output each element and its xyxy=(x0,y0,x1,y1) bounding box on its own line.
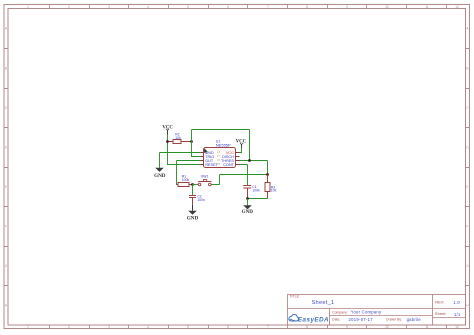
node junction C1/GND/R3 xyxy=(246,197,249,200)
border tick marks bottom xyxy=(50,325,447,329)
wire GND pin to left xyxy=(160,153,201,168)
wire THRES pin right and down xyxy=(240,161,268,175)
wire CONT pin to C1 xyxy=(240,165,248,186)
node junction THRES/SW1/R3 xyxy=(266,173,269,176)
svg-text:F: F xyxy=(467,225,469,229)
svg-text:3: 3 xyxy=(108,325,110,329)
svg-text:7: 7 xyxy=(267,325,269,329)
svg-text:NE555P: NE555P xyxy=(216,143,231,148)
ground GND (under C2) xyxy=(187,205,199,221)
title block values xyxy=(312,300,461,322)
svg-text:1/1: 1/1 xyxy=(454,312,461,317)
IC U1 NE555P xyxy=(201,140,240,168)
svg-text:2019-07-17: 2019-07-17 xyxy=(349,317,374,322)
wire VCC to R2-left junction xyxy=(167,135,169,142)
ground GND (right) xyxy=(242,199,254,216)
svg-text:F: F xyxy=(5,225,7,229)
svg-text:6: 6 xyxy=(227,325,229,329)
wire R2 junction up and over to THRES column xyxy=(192,130,250,161)
svg-text:B: B xyxy=(466,67,468,71)
wire VCC flag to VCC pin xyxy=(240,148,242,153)
svg-text:2: 2 xyxy=(68,325,70,329)
node junction top-net/THRES xyxy=(248,159,251,162)
EasyEDA logo xyxy=(289,314,329,323)
power flag VCC (right, at pin 8) xyxy=(236,140,247,148)
capacitor C2 xyxy=(189,185,205,205)
svg-text:9: 9 xyxy=(346,325,348,329)
svg-text:GND: GND xyxy=(242,209,254,215)
svg-text:3: 3 xyxy=(108,5,110,9)
svg-text:EasyEDA: EasyEDA xyxy=(298,316,329,323)
svg-text:10k: 10k xyxy=(175,136,181,140)
node junction VCC/R2/RESET xyxy=(166,140,169,143)
svg-text:4: 4 xyxy=(147,325,149,329)
svg-text:Sheet:: Sheet: xyxy=(435,311,447,316)
resistor R3 xyxy=(265,175,277,199)
node junction R1/SW1/C2 xyxy=(191,183,194,186)
svg-text:REV:: REV: xyxy=(435,300,444,305)
capacitor C1 xyxy=(243,185,260,199)
border tick marks top xyxy=(50,5,447,9)
svg-text:100k: 100k xyxy=(252,189,260,193)
svg-text:7: 7 xyxy=(267,5,269,9)
svg-text:12: 12 xyxy=(455,325,459,329)
svg-text:SW1: SW1 xyxy=(201,174,208,178)
svg-text:1: 1 xyxy=(27,325,29,329)
svg-text:8: 8 xyxy=(306,325,308,329)
svg-text:Sheet_1: Sheet_1 xyxy=(312,300,335,306)
svg-text:10k: 10k xyxy=(271,189,277,193)
resistor R1 xyxy=(177,175,193,187)
mouse cursor xyxy=(204,148,208,154)
svg-text:5: 5 xyxy=(187,5,189,9)
svg-text:10: 10 xyxy=(385,325,389,329)
wire R2 junction down to TRIG pin xyxy=(192,130,201,157)
wire OUT pin down to R1 xyxy=(177,161,201,185)
svg-text:8: 8 xyxy=(306,5,308,9)
svg-text:1.0: 1.0 xyxy=(453,300,460,305)
switch SW1 xyxy=(198,174,211,186)
svg-text:GND: GND xyxy=(154,173,166,179)
wire VCC/R2 junction down to RESET pin xyxy=(168,142,201,165)
svg-text:5: 5 xyxy=(187,325,189,329)
svg-text:Drawn By:: Drawn By: xyxy=(386,318,402,322)
wire R1 junction to SW1 xyxy=(193,184,199,186)
svg-text:Date:: Date: xyxy=(332,318,340,322)
power flag VCC (left) xyxy=(162,125,173,134)
svg-text:100k: 100k xyxy=(182,178,190,182)
svg-text:11: 11 xyxy=(425,325,429,329)
ground GND (left) xyxy=(154,168,166,180)
svg-text:4: 4 xyxy=(147,5,149,9)
svg-text:E: E xyxy=(466,185,468,189)
svg-text:12: 12 xyxy=(455,5,459,9)
svg-text:Your Company: Your Company xyxy=(351,309,382,314)
svg-text:B: B xyxy=(5,67,7,71)
border tick marks left xyxy=(4,49,8,286)
svg-text:Company:: Company: xyxy=(332,310,348,314)
svg-text:GND: GND xyxy=(187,215,199,221)
border tick marks right xyxy=(466,49,470,286)
svg-text:TITLE:: TITLE: xyxy=(289,295,300,299)
svg-text:E: E xyxy=(5,185,7,189)
svg-text:2: 2 xyxy=(68,5,70,9)
resistor R2 xyxy=(168,133,192,144)
node junction R2/TRIG/top-net xyxy=(190,140,193,143)
svg-text:11: 11 xyxy=(425,5,429,9)
svg-text:gabrile: gabrile xyxy=(407,317,422,322)
svg-text:100n: 100n xyxy=(197,198,205,202)
svg-text:6: 6 xyxy=(227,5,229,9)
svg-text:9: 9 xyxy=(346,5,348,9)
title block frame xyxy=(288,295,466,326)
svg-text:CONT: CONT xyxy=(223,163,234,167)
title block labels xyxy=(289,295,446,322)
wire SW1 to R3/THRES junction xyxy=(211,175,267,185)
svg-text:1: 1 xyxy=(27,5,29,9)
wire C1 bottom to R3 bottom xyxy=(248,198,268,200)
svg-text:10: 10 xyxy=(385,5,389,9)
